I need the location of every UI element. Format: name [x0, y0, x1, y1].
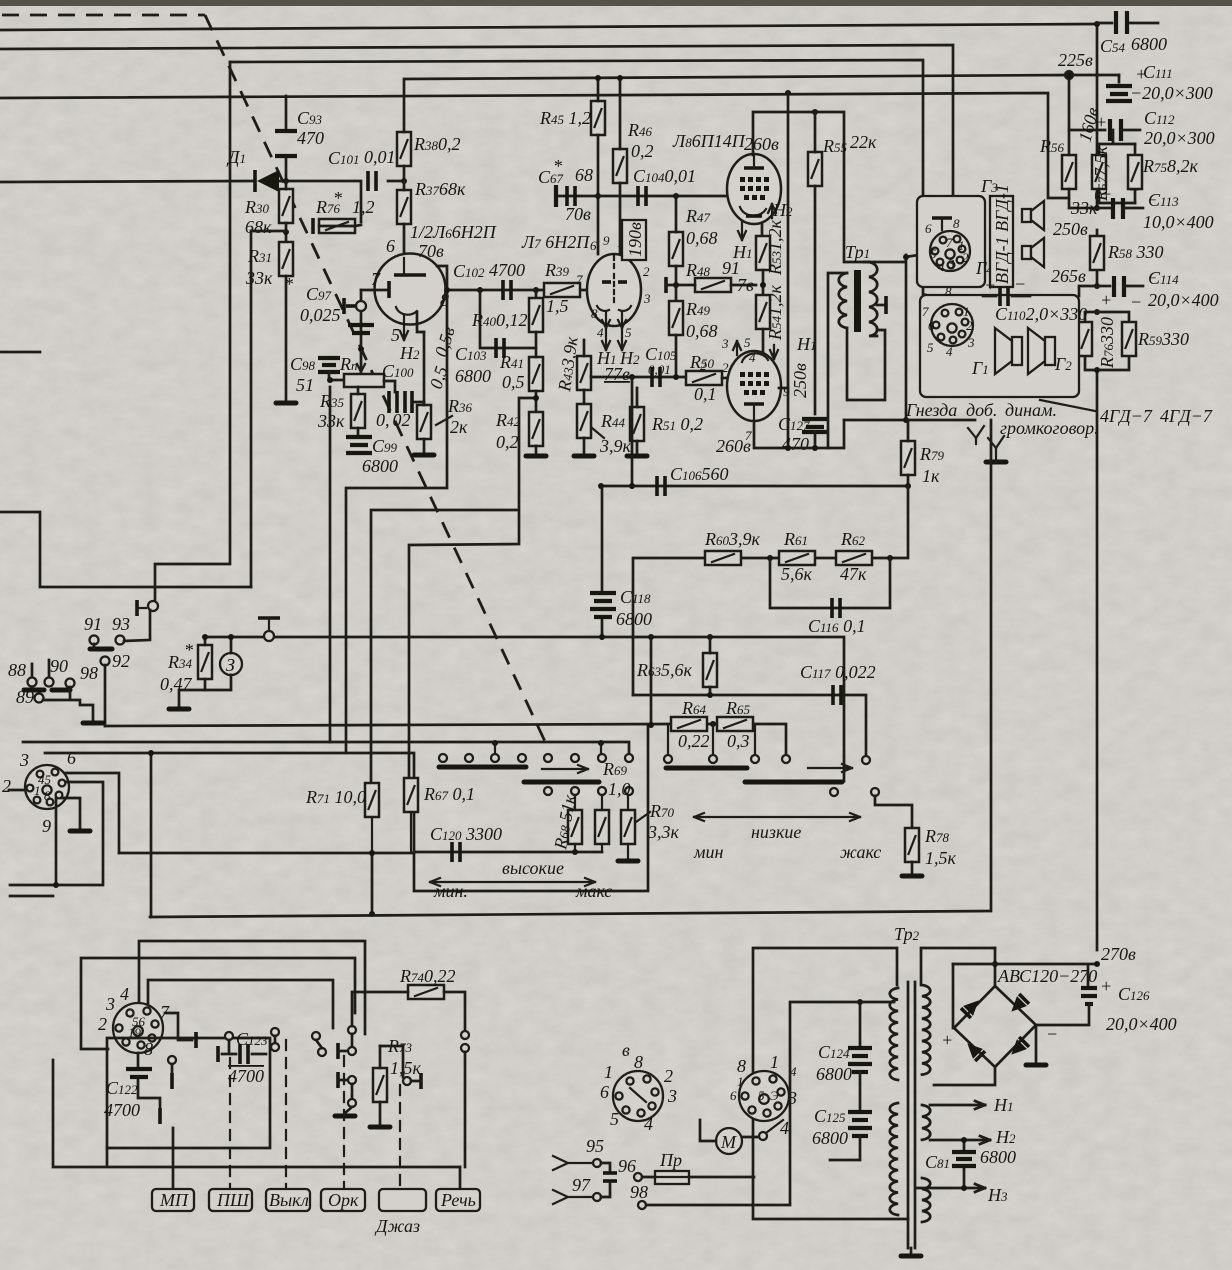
contact T x269 — [258, 618, 280, 641]
button PSh — [209, 1189, 252, 1211]
heater arrows L7 — [596, 330, 640, 384]
tube L9 pins — [700, 334, 817, 443]
resistor R79 — [901, 420, 945, 486]
treble wiper bars — [439, 765, 599, 782]
resistor R31 — [245, 242, 293, 400]
Tr2 primary winding lower — [890, 1103, 898, 1215]
treble box wires — [23, 725, 648, 891]
terminals 95-98 — [553, 1002, 894, 1209]
ground below R51 — [627, 455, 647, 457]
button MP — [152, 1189, 194, 1211]
resistor R69 pot — [595, 759, 631, 852]
label 4GD-7 — [1040, 400, 1213, 426]
heater arrow L8 — [732, 200, 793, 262]
resistor R68 — [550, 793, 582, 852]
capacitor C112 — [1095, 108, 1215, 148]
LEFTCOL — [226, 79, 497, 753]
svg-text:1: 1 — [604, 1062, 613, 1082]
ground below R42 — [526, 455, 546, 457]
RIGHTCOL — [917, 11, 1219, 950]
capacitor C122 — [104, 1053, 160, 1124]
button Jazz — [374, 1189, 426, 1236]
svg-text:−20,0×300: −20,0×300 — [1130, 83, 1213, 103]
resistor R70 — [618, 795, 680, 861]
svg-text:Джаз: Джаз — [374, 1216, 420, 1236]
svg-text:0,68: 0,68 — [686, 228, 718, 248]
wire 225v down to C112 node — [1069, 75, 1105, 130]
horn speaker top — [1022, 201, 1044, 230]
wire primary top to socket — [864, 253, 930, 420]
wire sw top2 — [81, 958, 355, 1049]
contacts 88 90 98 89 — [8, 656, 98, 707]
svg-text:4: 4 — [938, 259, 945, 274]
svg-text:250в: 250в — [1053, 219, 1088, 239]
capacitor C117 — [800, 662, 876, 705]
wire grid column C97 — [360, 290, 363, 380]
svg-text:270в: 270в — [1101, 944, 1136, 964]
svg-text:4ГД−7: 4ГД−7 — [1160, 406, 1213, 426]
bass arrows and labels — [693, 813, 881, 862]
Tr1 tap terminal — [877, 304, 886, 307]
svg-text:R740,22: R740,22 — [399, 966, 456, 986]
resistor R37 — [397, 179, 466, 258]
upper speaker box — [917, 196, 985, 287]
tube L6 half triode — [361, 236, 449, 363]
svg-text:47к: 47к — [840, 564, 867, 584]
label 225v — [1058, 50, 1093, 79]
svg-text:70в: 70в — [418, 241, 444, 261]
svg-text:5: 5 — [391, 325, 400, 345]
svg-text:Э: Э — [770, 1088, 779, 1103]
svg-text:6800: 6800 — [980, 1147, 1016, 1167]
svg-text:4ГД−7: 4ГД−7 — [1100, 406, 1153, 426]
wire C103 branch — [480, 290, 536, 348]
svg-text:190в: 190в — [625, 222, 645, 257]
svg-text:C1040,01: C1040,01 — [633, 166, 696, 186]
svg-text:0,2: 0,2 — [496, 432, 519, 452]
Tr2 filament winding 1 — [922, 1105, 930, 1140]
switch cluster right of socket — [165, 1013, 196, 1089]
svg-text:1: 1 — [770, 1052, 779, 1072]
svg-text:6: 6 — [386, 236, 395, 256]
capacitor C98 — [290, 354, 361, 395]
wire right loop x991 — [990, 420, 993, 911]
svg-text:2: 2 — [98, 1014, 107, 1034]
capacitor C104 — [633, 166, 696, 206]
svg-text:−: − — [1046, 1024, 1058, 1044]
svg-text:8: 8 — [953, 216, 960, 231]
svg-text:3: 3 — [967, 335, 975, 350]
wire x632 down — [631, 377, 634, 486]
svg-text:20,0×400: 20,0×400 — [1148, 290, 1219, 310]
svg-text:C117 0,022: C117 0,022 — [800, 662, 876, 682]
wire sw top3 — [148, 980, 333, 1028]
fuse Pr — [655, 1150, 689, 1184]
svg-text:5: 5 — [744, 335, 751, 350]
node R38/R37 — [401, 178, 407, 184]
resistor R50 — [686, 352, 729, 404]
svg-text:9: 9 — [783, 384, 790, 399]
svg-text:2: 2 — [643, 264, 650, 279]
svg-text:6: 6 — [925, 221, 932, 236]
svg-text:6800: 6800 — [1131, 34, 1167, 54]
transformer Tr1 — [828, 242, 930, 448]
speaker jacks — [968, 426, 1006, 462]
svg-text:4700: 4700 — [228, 1066, 264, 1086]
capacitor C100 — [376, 361, 424, 430]
wire cathode L6 — [330, 266, 447, 753]
svg-text:Гнезда: Гнезда — [905, 400, 957, 420]
svg-text:C120 3300: C120 3300 — [430, 824, 502, 844]
wire 88 up — [32, 644, 94, 677]
svg-text:−: − — [1130, 292, 1142, 312]
svg-text:4700: 4700 — [104, 1100, 140, 1120]
svg-text:0,01: 0,01 — [648, 362, 671, 377]
wire dashed top bus — [2, 14, 205, 17]
svg-text:4700: 4700 — [489, 260, 525, 280]
svg-text:10,0×400: 10,0×400 — [1143, 212, 1214, 232]
wire dashed diagonal — [205, 15, 549, 750]
svg-text:в: в — [622, 1040, 630, 1060]
svg-text:3: 3 — [947, 256, 955, 271]
button Ork — [321, 1189, 365, 1211]
potentiometer Rn — [339, 352, 384, 387]
svg-text:жакс: жакс — [840, 842, 881, 862]
capacitor C105 — [645, 344, 677, 387]
svg-text:9: 9 — [42, 816, 51, 836]
svg-text:R3768к: R3768к — [414, 179, 466, 199]
capacitor C99 — [346, 436, 398, 476]
svg-text:−: − — [1128, 180, 1140, 200]
wire long y726 with R64 R65 — [105, 724, 786, 754]
contacts 91 93 — [84, 610, 150, 649]
svg-text:R71 10,0: R71 10,0 — [305, 787, 366, 807]
svg-text:68к: 68к — [245, 217, 272, 237]
resistor R45 — [539, 75, 605, 254]
svg-text:мин: мин — [693, 842, 723, 862]
bass wiper bars — [666, 764, 852, 782]
connector ground — [62, 798, 80, 828]
svg-text:93: 93 — [112, 614, 130, 634]
button Vykl — [266, 1189, 310, 1211]
node Rn left — [327, 377, 333, 383]
diode D1 — [226, 147, 279, 192]
socket G1 — [922, 284, 975, 359]
bridge top to 270v — [994, 948, 997, 986]
wire bass wiper to R78 — [875, 796, 912, 828]
resistor R38 — [397, 79, 461, 181]
svg-text:Л86П14П: Л86П14П — [672, 131, 746, 151]
resistor R34 — [160, 634, 212, 709]
wire bus L1 — [0, 24, 1097, 30]
resistor R36 — [417, 396, 473, 452]
bass switch contacts — [664, 755, 879, 796]
node grid bottom — [358, 346, 364, 352]
svg-text:динам.: динам. — [1005, 400, 1057, 420]
svg-text:0,2: 0,2 — [631, 141, 654, 161]
wire long y637 — [205, 637, 844, 781]
svg-text:6: 6 — [600, 1082, 609, 1102]
svg-text:0,5: 0,5 — [502, 372, 525, 392]
svg-text:8: 8 — [144, 1039, 153, 1059]
transformer Tr2 core — [908, 982, 915, 1248]
node R47 top — [673, 193, 679, 199]
wire panel bottom long — [53, 1060, 460, 1167]
bridge left right connections — [934, 964, 995, 1085]
treble lower contacts — [544, 787, 633, 795]
resistor R60 — [704, 529, 761, 565]
button Rech — [436, 1189, 480, 1211]
socket SW — [98, 984, 170, 1059]
node 250v C113 — [1053, 180, 1214, 239]
svg-text:*: * — [284, 274, 293, 294]
svg-text:4: 4 — [749, 350, 756, 365]
wire bottom long A — [150, 911, 990, 917]
svg-text:2: 2 — [700, 358, 707, 373]
svg-text:R541,2к: R541,2к — [765, 285, 785, 342]
svg-text:1,5к: 1,5к — [925, 848, 957, 868]
svg-text:+: + — [1100, 184, 1112, 204]
svg-text:0,1: 0,1 — [694, 384, 717, 404]
svg-text:6800: 6800 — [816, 1064, 852, 1084]
svg-text:1,5к: 1,5к — [390, 1058, 422, 1078]
svg-text:доб.: доб. — [966, 400, 997, 420]
treble contacts row — [439, 743, 633, 762]
capacitor C93 — [275, 96, 324, 181]
resistor R46 — [613, 75, 654, 254]
svg-text:R59330: R59330 — [1137, 329, 1189, 349]
svg-text:9: 9 — [603, 233, 610, 248]
svg-text:1,2: 1,2 — [352, 197, 375, 217]
svg-text:1к: 1к — [922, 466, 940, 486]
resistor R35 — [317, 387, 365, 435]
label Gnezda — [905, 400, 1099, 438]
svg-text:20,0×300: 20,0×300 — [1144, 128, 1215, 148]
ground Tr2 bottom — [901, 1248, 921, 1256]
svg-text:3: 3 — [721, 336, 729, 351]
svg-text:МП: МП — [159, 1190, 189, 1210]
svg-text:+: + — [1100, 290, 1112, 310]
svg-text:низкие: низкие — [751, 822, 801, 842]
svg-text:2: 2 — [962, 250, 969, 265]
OUTPUT — [598, 90, 1099, 496]
svg-text:ВГД-1 ВГД-1: ВГД-1 ВГД-1 — [992, 184, 1012, 284]
svg-text:68: 68 — [575, 165, 593, 185]
svg-text:высокие: высокие — [502, 858, 564, 878]
motor M — [700, 1120, 783, 1154]
svg-text:мин.: мин. — [433, 881, 468, 901]
Tr1 left winding — [839, 273, 847, 328]
wire screen rail x788 — [787, 93, 790, 448]
svg-text:3: 3 — [667, 1086, 677, 1106]
capacitor C126 — [953, 961, 1177, 1044]
svg-text:91: 91 — [84, 614, 102, 634]
svg-text:8: 8 — [44, 788, 51, 803]
svg-text:Л7 6Н2П: Л7 6Н2П — [521, 232, 590, 252]
wire right bus x1097 — [1096, 24, 1099, 950]
resistor R58 — [1090, 236, 1164, 270]
resistor R55 — [808, 112, 877, 414]
resistor R54 — [756, 285, 785, 353]
ground below R44 — [574, 455, 594, 457]
resistor R48 — [666, 258, 756, 293]
svg-text:З: З — [226, 655, 235, 675]
bell Z — [205, 634, 242, 690]
ground below R36 — [414, 454, 434, 456]
wire bottom rail y448 — [754, 420, 844, 448]
capacitor C106 — [657, 464, 729, 496]
svg-text:3,3к: 3,3к — [647, 822, 680, 842]
svg-text:260в: 260в — [744, 134, 779, 154]
tube L7 pin labels — [576, 233, 651, 340]
switch box — [107, 1038, 270, 1148]
resistor R63 — [636, 637, 717, 695]
wire feedback row y558 — [633, 486, 908, 695]
capacitor C123 — [218, 1029, 268, 1086]
svg-text:*: * — [553, 156, 562, 176]
capacitor C127 — [778, 414, 828, 454]
svg-text:3: 3 — [19, 750, 29, 770]
tube L9 — [727, 351, 781, 421]
box 190v — [622, 220, 646, 260]
socket P1 — [730, 1052, 797, 1138]
svg-text:265в: 265в — [1051, 266, 1086, 286]
svg-text:R51 0,2: R51 0,2 — [651, 414, 703, 434]
resistor R67 — [404, 778, 475, 852]
tube L8 — [727, 154, 781, 224]
svg-text:+: + — [941, 1030, 953, 1050]
svg-text:4: 4 — [644, 1114, 653, 1134]
socket G3 — [925, 216, 970, 274]
POWER — [553, 924, 1177, 1256]
svg-text:33к: 33к — [245, 268, 273, 288]
wire C120 row — [414, 851, 602, 854]
svg-text:Речь: Речь — [440, 1190, 476, 1210]
wire L8 plate to Tr1 — [753, 112, 869, 262]
STAGE2 — [371, 75, 756, 783]
tube L7 — [587, 254, 641, 328]
cone speaker G2 — [1028, 328, 1072, 374]
svg-text:88: 88 — [8, 660, 26, 680]
Tr1 secondary loop — [828, 273, 885, 448]
wire bus L2 — [0, 45, 953, 218]
svg-text:20,0×400: 20,0×400 — [1106, 1014, 1177, 1034]
wire bus y181 — [0, 181, 253, 182]
resistor R62 — [836, 529, 872, 584]
svg-text:92: 92 — [112, 651, 130, 671]
svg-text:7: 7 — [946, 235, 953, 250]
label 0,5v rotated — [426, 324, 459, 391]
capacitor C110 — [983, 274, 1087, 324]
svg-text:Пр: Пр — [659, 1150, 682, 1170]
svg-text:R531,2к: R531,2к — [765, 220, 785, 277]
svg-text:Выкл: Выкл — [269, 1190, 309, 1210]
capacitor C54 — [1097, 11, 1167, 56]
contact 92 — [101, 651, 131, 726]
R73 right contacts — [380, 1046, 421, 1089]
svg-text:8: 8 — [591, 306, 598, 321]
contacts mid — [271, 1028, 326, 1056]
svg-text:7: 7 — [576, 272, 583, 287]
svg-text:8: 8 — [737, 1056, 746, 1076]
cathode column R53 — [756, 220, 785, 300]
resistor R42 — [495, 410, 543, 453]
capacitor C101 — [328, 147, 396, 191]
resistor R73 — [370, 1036, 422, 1127]
socket P2 — [600, 1040, 677, 1134]
svg-text:5: 5 — [927, 340, 934, 355]
svg-text:R76330: R76330 — [1097, 317, 1117, 369]
svg-text:1: 1 — [737, 1074, 744, 1089]
wire C117 row y695 — [633, 637, 866, 758]
ground below R31 — [276, 402, 296, 404]
svg-text:3,9к: 3,9к — [599, 436, 632, 456]
capacitor C103 — [455, 338, 504, 386]
svg-text:1/2Л66Н2П: 1/2Л66Н2П — [410, 222, 497, 242]
resistor R47 — [669, 196, 718, 301]
resistor R64 — [668, 698, 713, 753]
svg-text:громкоговор.: громкоговор. — [1000, 418, 1099, 438]
bridge ABC120-270 — [954, 986, 1036, 1067]
resistor R39 — [544, 260, 580, 316]
SWPANEL — [53, 941, 480, 1236]
svg-text:R758,2к: R758,2к — [1142, 156, 1199, 176]
svg-text:470: 470 — [297, 128, 324, 148]
wire bus L4 — [0, 93, 1069, 198]
svg-text:77в: 77в — [604, 364, 630, 384]
capacitor C111 — [1069, 62, 1213, 103]
svg-text:2: 2 — [664, 1066, 673, 1086]
resistor R61 — [779, 529, 815, 584]
wire C118 branch — [601, 486, 604, 637]
svg-text:22к: 22к — [850, 132, 877, 152]
resistor R41 — [499, 332, 543, 412]
capacitor C125 — [812, 1106, 872, 1160]
svg-text:3: 3 — [643, 291, 651, 306]
svg-text:95: 95 — [586, 1136, 604, 1156]
svg-text:1: 1 — [963, 304, 970, 319]
resistor R71 — [305, 783, 379, 856]
resistor R49 — [669, 299, 718, 377]
node A — [283, 178, 289, 184]
resistor R56 — [1039, 130, 1098, 218]
svg-text:51: 51 — [296, 375, 314, 395]
capacitor C116 bypass — [770, 558, 890, 636]
resistor R78 — [902, 826, 957, 876]
wire plate line y290 — [447, 289, 588, 292]
svg-text:0,47: 0,47 — [160, 674, 193, 694]
wire left y352 stub — [250, 231, 253, 587]
svg-text:−: − — [1014, 274, 1026, 294]
svg-text:ПШ: ПШ — [216, 1190, 250, 1210]
resistor R40 — [471, 298, 543, 332]
svg-text:+: + — [984, 275, 996, 295]
wire y587 net — [0, 352, 251, 587]
capacitor C81 — [925, 1137, 1016, 1191]
bridge ground — [1026, 1025, 1046, 1065]
Tr2 filament winding 2 — [922, 1178, 930, 1222]
svg-text:3: 3 — [787, 1088, 797, 1108]
svg-text:+: + — [1100, 976, 1112, 996]
svg-text:1: 1 — [34, 783, 41, 798]
svg-text:0,22: 0,22 — [678, 731, 710, 751]
svg-text:5: 5 — [610, 1109, 619, 1129]
svg-text:260в: 260в — [716, 436, 751, 456]
wire sw top1 — [139, 941, 365, 1034]
wire bus L3 — [230, 60, 938, 299]
contact pair x155 — [137, 600, 158, 616]
svg-text:97: 97 — [572, 1175, 591, 1195]
